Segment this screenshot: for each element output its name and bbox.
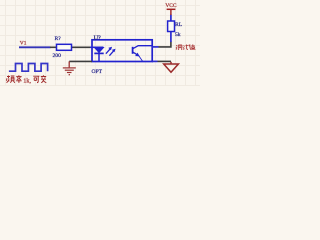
svg-text:OPT: OPT <box>92 69 103 75</box>
emission arrow 1 <box>106 47 112 54</box>
LED cathode lead <box>98 53 100 61</box>
svg-text:R?: R? <box>55 36 62 42</box>
power VCC <box>167 9 176 15</box>
LED cathode bar <box>94 52 103 54</box>
resistor R? <box>50 44 90 50</box>
ground <box>63 61 76 74</box>
svg-text:U?: U? <box>94 35 101 42</box>
svg-text:VCC: VCC <box>165 3 176 9</box>
resistor RL <box>168 15 175 32</box>
wire collector to RL <box>152 32 171 47</box>
text 测试点 <box>176 44 195 50</box>
emitter tail to box bottom <box>139 56 143 62</box>
LED anode lead <box>90 46 103 48</box>
LED triangle <box>94 48 103 53</box>
text 频率1k 可变 <box>6 75 21 83</box>
test point arrow <box>164 62 179 73</box>
phototransistor base bar <box>132 47 134 54</box>
变 <box>41 75 47 83</box>
square wave symbol <box>9 64 48 72</box>
emitter arrowhead <box>136 53 140 56</box>
wire V1 to R <box>19 46 51 48</box>
率 <box>16 75 22 83</box>
svg-text:1k,: 1k, <box>23 78 31 85</box>
svg-text:V1: V1 <box>20 41 27 47</box>
可 <box>33 76 39 82</box>
频 <box>6 76 14 83</box>
opto box <box>92 40 152 62</box>
emission arrow 2 <box>109 49 115 56</box>
svg-text:RL: RL <box>175 22 183 28</box>
emitter line <box>133 52 138 55</box>
wire cathode to ground <box>69 60 92 62</box>
wire emitter to test point <box>152 60 171 62</box>
optocoupler U? <box>90 40 152 62</box>
svg-text:5k: 5k <box>175 32 181 38</box>
svg-text:200: 200 <box>53 53 62 59</box>
collector line <box>133 46 152 49</box>
